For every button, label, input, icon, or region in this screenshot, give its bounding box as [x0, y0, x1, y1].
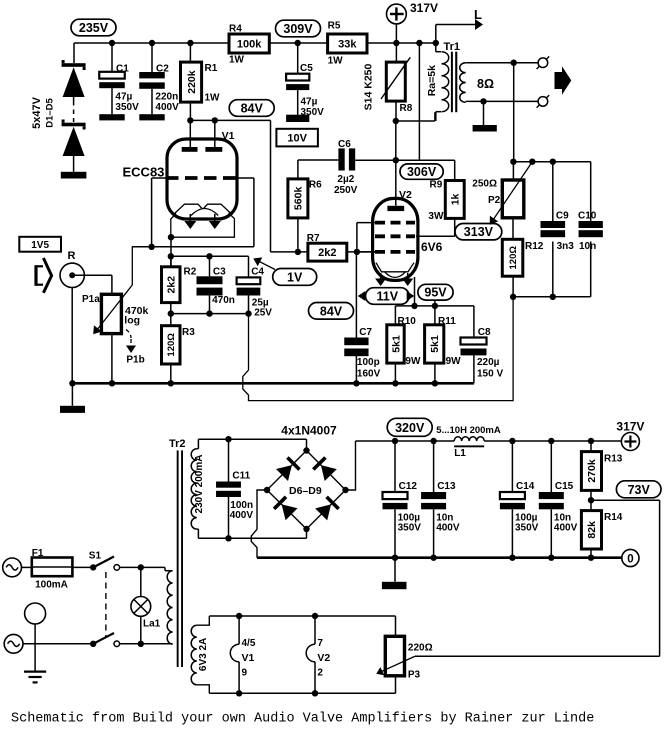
svg-text:5x47V: 5x47V: [31, 96, 43, 128]
svg-text:250Ω: 250Ω: [472, 179, 497, 190]
svg-text:R5: R5: [328, 21, 341, 32]
svg-text:0: 0: [627, 553, 633, 565]
svg-text:P1a: P1a: [82, 294, 100, 305]
svg-text:11V: 11V: [377, 290, 399, 304]
svg-text:C1: C1: [116, 64, 129, 75]
svg-text:400V: 400V: [554, 522, 578, 533]
svg-text:C8: C8: [478, 327, 491, 338]
svg-text:L1: L1: [454, 448, 466, 459]
svg-text:1W: 1W: [205, 93, 221, 104]
svg-text:Tr2: Tr2: [169, 438, 186, 450]
svg-text:150 V: 150 V: [477, 369, 503, 380]
svg-text:C4: C4: [251, 267, 264, 278]
svg-text:400V: 400V: [436, 522, 460, 533]
svg-text:R12: R12: [525, 241, 544, 252]
svg-text:47µ: 47µ: [301, 97, 318, 108]
svg-text:R6: R6: [309, 180, 322, 191]
svg-text:C6: C6: [338, 139, 351, 150]
svg-text:1W: 1W: [229, 55, 245, 66]
svg-text:560k: 560k: [293, 187, 305, 211]
svg-text:Tr1: Tr1: [444, 41, 461, 53]
svg-text:9W: 9W: [446, 356, 462, 367]
svg-text:4/5: 4/5: [242, 638, 256, 649]
svg-text:S14 K250: S14 K250: [363, 63, 375, 110]
svg-text:P2: P2: [488, 195, 501, 206]
svg-text:Ra=5k: Ra=5k: [426, 65, 438, 96]
svg-text:100k: 100k: [237, 38, 262, 50]
svg-text:1k: 1k: [450, 193, 462, 205]
svg-text:235V: 235V: [79, 21, 109, 35]
svg-text:R3: R3: [182, 327, 195, 338]
svg-text:C15: C15: [555, 481, 574, 492]
svg-text:160V: 160V: [357, 369, 381, 380]
svg-text:320V: 320V: [395, 421, 425, 435]
svg-text:350V: 350V: [301, 107, 325, 118]
svg-text:73V: 73V: [628, 483, 651, 497]
svg-text:313V: 313V: [464, 225, 494, 239]
svg-text:350V: 350V: [115, 102, 139, 113]
svg-text:L: L: [474, 7, 482, 22]
svg-text:470n: 470n: [212, 295, 235, 306]
svg-text:47µ: 47µ: [115, 92, 132, 103]
svg-text:R9: R9: [430, 180, 443, 191]
svg-text:10n: 10n: [579, 241, 596, 252]
svg-text:220Ω: 220Ω: [408, 643, 433, 654]
svg-text:3W: 3W: [428, 211, 444, 222]
svg-text:2k2: 2k2: [166, 276, 178, 294]
svg-text:84V: 84V: [241, 102, 264, 116]
svg-text:R10: R10: [398, 316, 417, 327]
svg-text:R14: R14: [604, 512, 623, 523]
svg-text:400V: 400V: [155, 102, 179, 113]
svg-text:R4: R4: [229, 24, 242, 35]
svg-text:6V3 2A: 6V3 2A: [198, 638, 209, 671]
svg-text:5k1: 5k1: [429, 335, 441, 353]
svg-text:5k1: 5k1: [390, 335, 402, 353]
svg-text:C7: C7: [359, 327, 372, 338]
svg-text:2k2: 2k2: [318, 247, 336, 259]
svg-text:C5: C5: [300, 63, 313, 74]
svg-text:220k: 220k: [186, 70, 198, 94]
svg-text:7: 7: [317, 638, 323, 649]
svg-text:R7: R7: [307, 233, 320, 244]
svg-text:P3: P3: [408, 670, 421, 681]
svg-text:9W: 9W: [405, 356, 421, 367]
svg-text:1V: 1V: [287, 270, 303, 284]
svg-text:120Ω: 120Ω: [166, 333, 177, 357]
svg-text:309V: 309V: [283, 22, 313, 36]
svg-text:C3: C3: [213, 267, 226, 278]
svg-text:C12: C12: [399, 481, 418, 492]
svg-text:R2: R2: [184, 267, 197, 278]
svg-text:95V: 95V: [424, 286, 447, 300]
svg-text:220n: 220n: [155, 92, 178, 103]
svg-text:P1b: P1b: [126, 355, 144, 366]
svg-text:1W: 1W: [328, 56, 344, 67]
svg-text:D1–D5: D1–D5: [45, 98, 56, 128]
svg-text:10V: 10V: [287, 133, 307, 145]
svg-text:33k: 33k: [338, 38, 357, 50]
svg-text:log: log: [124, 315, 140, 327]
svg-text:ECC83: ECC83: [123, 165, 165, 180]
svg-text:C14: C14: [516, 481, 535, 492]
svg-text:2: 2: [317, 668, 323, 679]
svg-text:317V: 317V: [410, 1, 438, 15]
svg-text:350V: 350V: [515, 522, 539, 533]
svg-text:120Ω: 120Ω: [508, 246, 519, 270]
svg-text:R13: R13: [604, 454, 623, 465]
svg-text:8Ω: 8Ω: [477, 77, 494, 91]
svg-text:S1: S1: [89, 551, 102, 562]
svg-text:C2: C2: [156, 64, 169, 75]
svg-text:220µ: 220µ: [477, 357, 500, 368]
svg-text:84V: 84V: [320, 304, 343, 318]
svg-text:Schematic from Build your own: Schematic from Build your own Audio Valv…: [11, 712, 594, 727]
svg-text:La1: La1: [143, 619, 161, 630]
svg-text:270k: 270k: [586, 459, 598, 483]
svg-text:C10: C10: [578, 211, 597, 222]
svg-text:100p: 100p: [357, 357, 380, 368]
svg-text:306V: 306V: [407, 165, 437, 179]
svg-text:400V: 400V: [230, 510, 254, 521]
svg-text:D6–D9: D6–D9: [289, 485, 322, 497]
svg-text:82k: 82k: [586, 521, 598, 539]
svg-text:V2: V2: [317, 652, 330, 664]
svg-text:350V: 350V: [398, 522, 422, 533]
svg-text:3n3: 3n3: [557, 241, 575, 252]
svg-text:R8: R8: [400, 103, 413, 114]
svg-text:4x1N4007: 4x1N4007: [281, 424, 337, 438]
svg-text:R1: R1: [205, 63, 218, 74]
svg-text:250V: 250V: [334, 185, 358, 196]
svg-text:C13: C13: [437, 481, 456, 492]
svg-text:100mA: 100mA: [35, 580, 68, 591]
svg-text:2µ2: 2µ2: [337, 174, 354, 185]
svg-text:R: R: [68, 250, 76, 262]
svg-text:25V: 25V: [254, 308, 272, 319]
svg-text:317V: 317V: [616, 420, 644, 434]
svg-text:F1: F1: [32, 548, 44, 559]
svg-text:230V 200mA: 230V 200mA: [194, 455, 205, 514]
svg-text:5...10H 200mA: 5...10H 200mA: [436, 425, 501, 436]
svg-text:R11: R11: [438, 316, 456, 327]
svg-text:1V5: 1V5: [31, 240, 49, 251]
svg-text:V1: V1: [242, 652, 255, 664]
svg-text:C9: C9: [556, 211, 569, 222]
svg-text:C11: C11: [232, 471, 250, 482]
svg-text:6V6: 6V6: [421, 240, 443, 254]
svg-text:9: 9: [242, 668, 248, 679]
